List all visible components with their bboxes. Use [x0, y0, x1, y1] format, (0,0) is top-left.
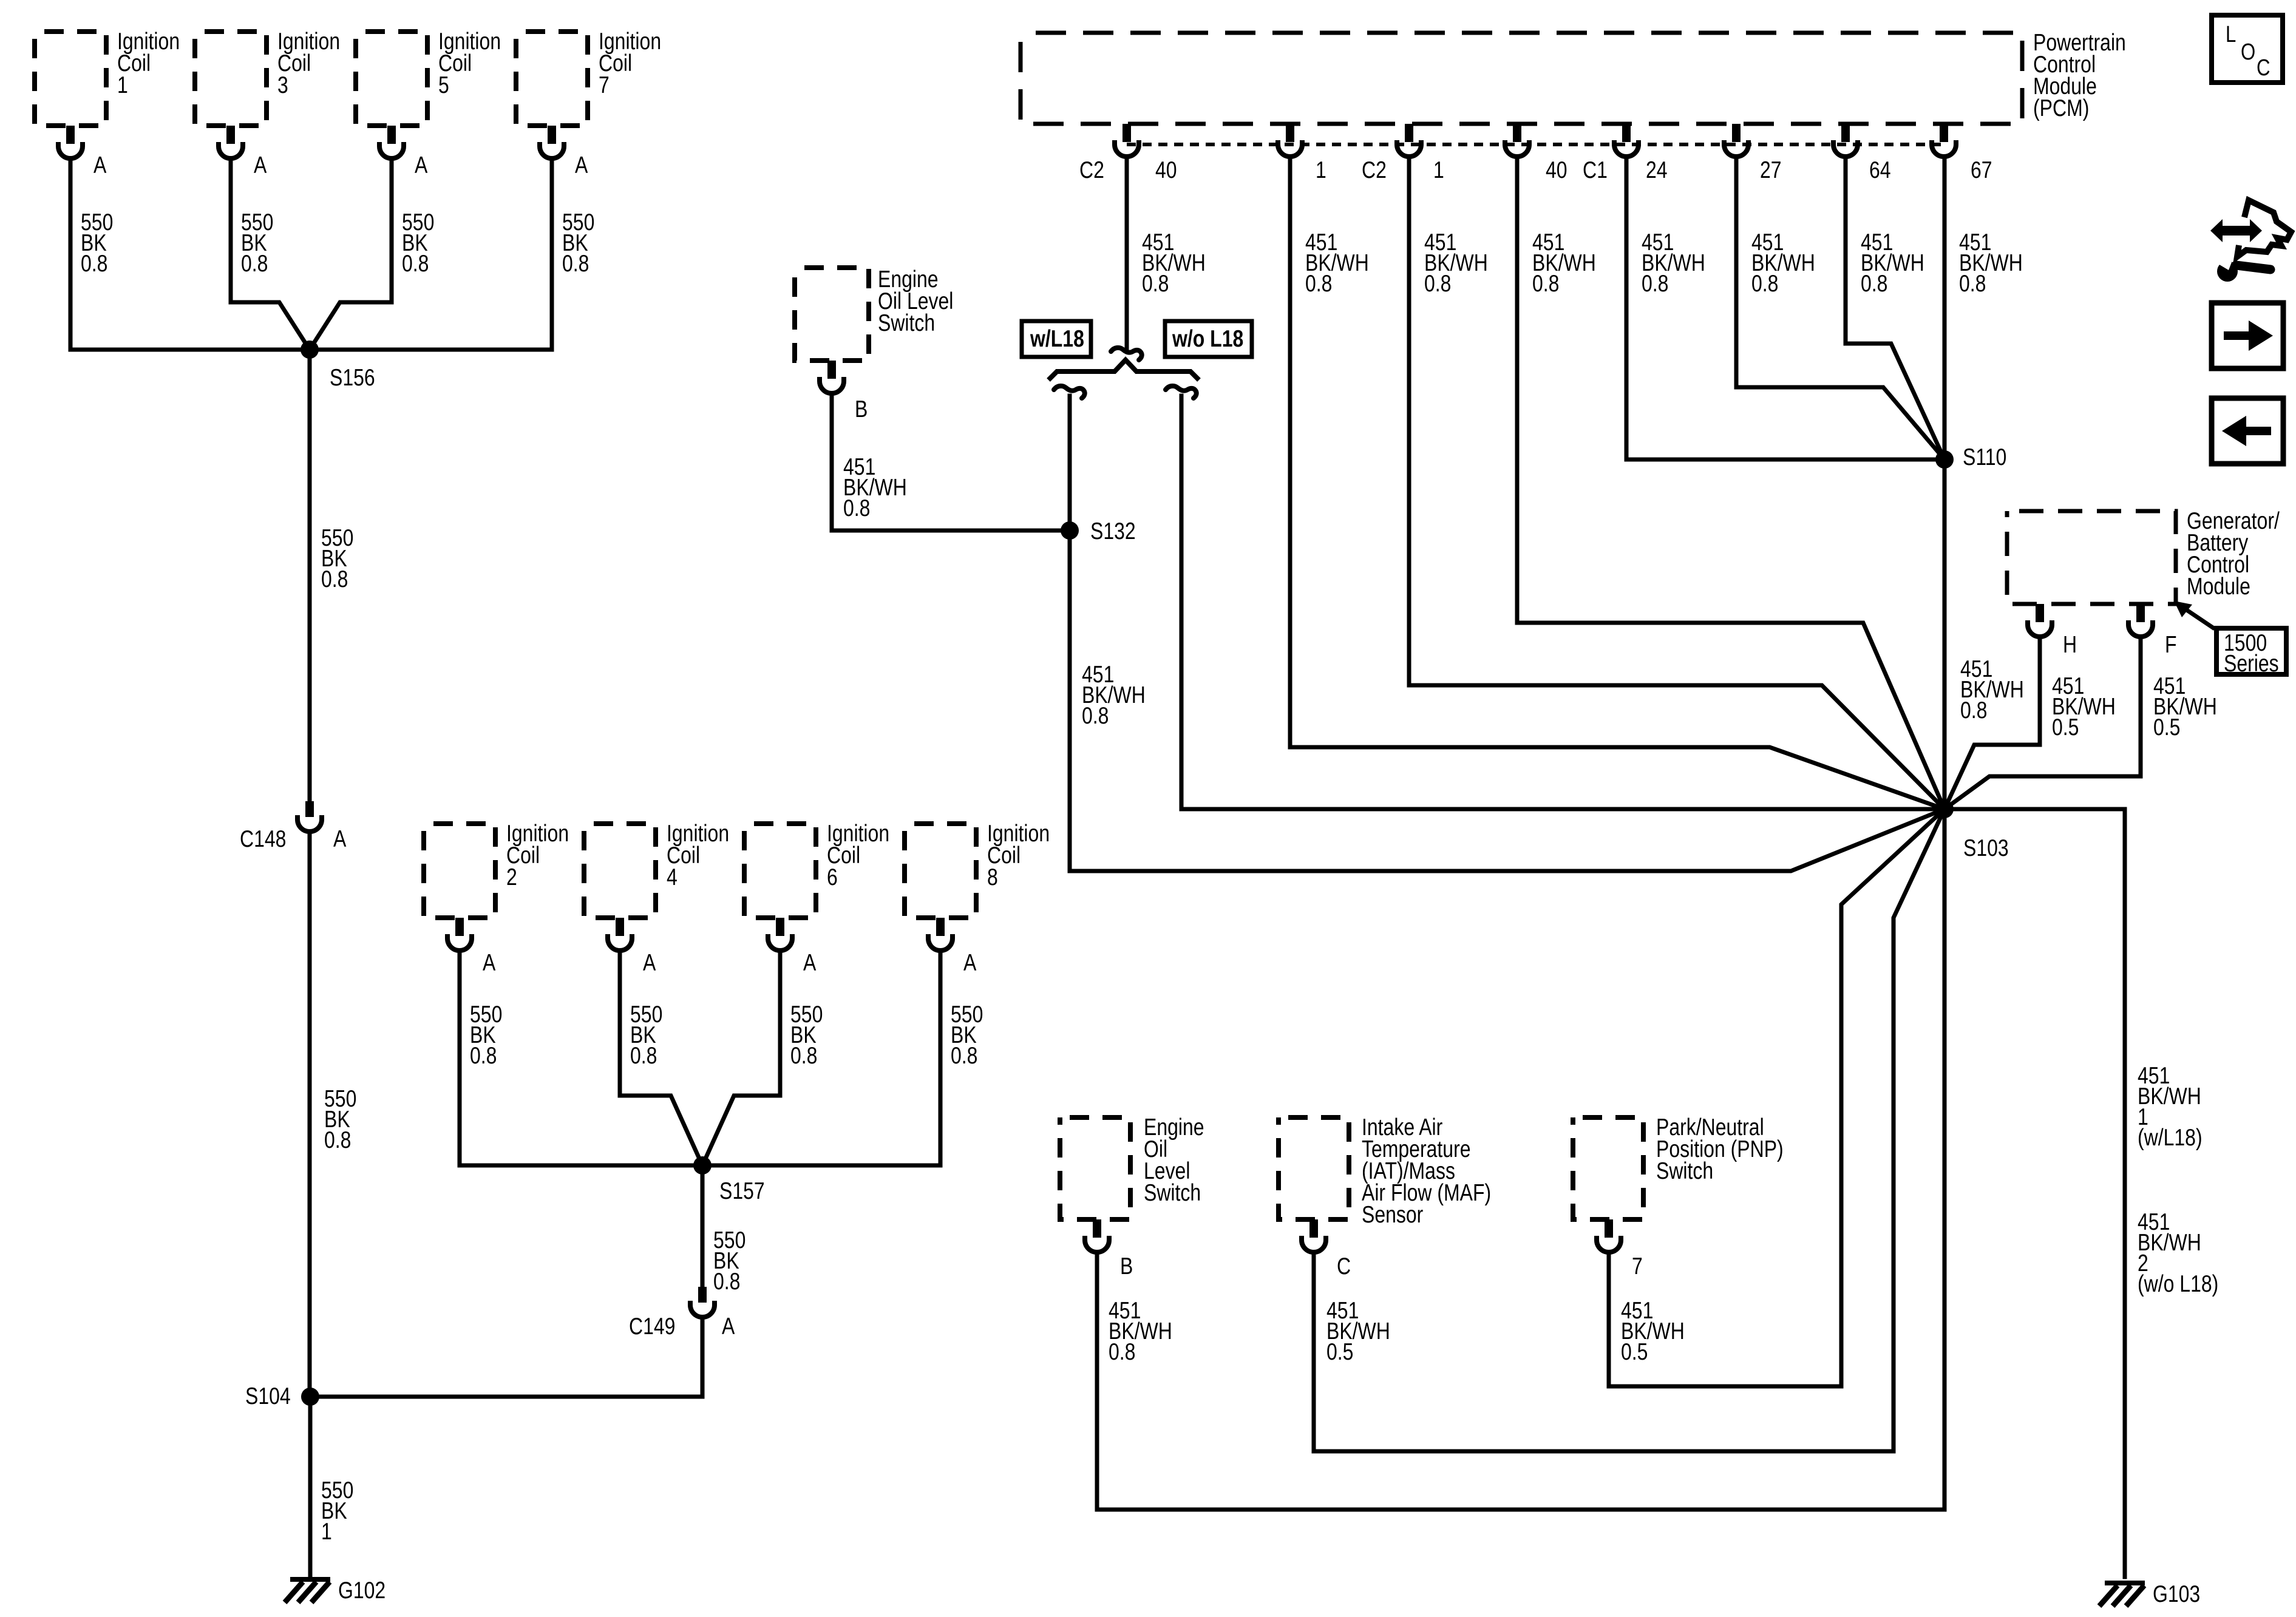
- svg-text:S156: S156: [330, 364, 375, 391]
- wire w/L18 branch down to S132: [1068, 396, 1072, 531]
- connector pin A of ignition coil 6: [768, 918, 792, 951]
- svg-text:A: A: [722, 1313, 735, 1340]
- Engine Oil Level Switch (dashed box, top): [795, 268, 869, 361]
- svg-text:w/L18: w/L18: [1030, 325, 1084, 352]
- wire 550 BK 1 from S104 to ground G102: [308, 1397, 313, 1577]
- connector pin H of generator/battery control module: [2028, 604, 2052, 637]
- wire 451 BK/WH 0.5 from pin H to S103: [1944, 637, 2040, 809]
- wire 451 BK/WH 0.8 from PCM pin 64 to S110: [1846, 157, 1944, 459]
- splice S132: [1061, 521, 1079, 540]
- svg-text:A: A: [483, 949, 496, 976]
- wire 550 BK 0.8 from coil 6 to S157: [702, 951, 780, 1165]
- wire 550 BK 0.8 from S157 to C149: [701, 1165, 705, 1287]
- svg-text:64: 64: [1869, 157, 1891, 183]
- connector pin A of ignition coil 1: [58, 126, 83, 158]
- svg-text:A: A: [643, 949, 656, 976]
- wire 550 BK 0.8 from coil 8 to S157 bus: [939, 951, 943, 1165]
- svg-text:27: 27: [1760, 157, 1782, 183]
- svg-text:B: B: [855, 396, 868, 422]
- splice S103: [1935, 800, 1954, 818]
- svg-text:S157: S157: [719, 1178, 765, 1204]
- PCM connector face line (fine dashes): [1127, 143, 1944, 146]
- svg-text:67: 67: [1971, 157, 1992, 183]
- ignition coil 3 (dashed box): [195, 32, 267, 126]
- connector pin A of ignition coil 7: [540, 126, 564, 158]
- svg-text:1: 1: [1316, 157, 1326, 183]
- connector pin A of ignition coil 4: [608, 918, 632, 951]
- PCM pin 40 connector: [1505, 124, 1529, 157]
- wire 451 BK/WH 0.8 from PCM pin C2-40 to harness break: [1125, 157, 1129, 351]
- connector pin B of engine oil level switch (top): [820, 361, 844, 393]
- wire 451 BK/WH 0.8 from PCM pin 1 to S103: [1290, 157, 1944, 809]
- splice S156: [301, 341, 319, 359]
- svg-text:L: L: [2226, 22, 2236, 47]
- svg-text:G102: G102: [338, 1577, 385, 1604]
- ground G103: [2099, 1581, 2145, 1606]
- connector pin C of IAT/MAF sensor: [1302, 1219, 1326, 1252]
- option label box w/L18: [1022, 321, 1091, 357]
- wire 451 BK/WH 0.8 from S132 to S103: [1070, 531, 1944, 871]
- wire 550 BK 0.8 from coil 5 to S156: [310, 158, 392, 350]
- option label box w/o L18: [1165, 321, 1252, 357]
- wire 550 BK 0.8 from S156 to C148: [308, 350, 312, 801]
- Engine Oil Level Switch (dashed box, bottom): [1060, 1117, 1130, 1219]
- svg-text:C: C: [1337, 1253, 1351, 1280]
- svg-text:S103: S103: [1963, 835, 2009, 861]
- svg-text:A: A: [575, 152, 588, 178]
- svg-text:C148: C148: [240, 825, 286, 852]
- svg-text:S110: S110: [1963, 444, 2006, 470]
- PCM pin 27 connector: [1724, 124, 1748, 157]
- wire 451 BK/WH 0.8 from PCM pin C2-1 to S103: [1409, 157, 1944, 809]
- PCM pin 64 connector: [1833, 124, 1858, 157]
- wire w/o L18 branch down and right to S103: [1181, 396, 1944, 809]
- wire 451 BK/WH 0.5 from pin F to S103: [1944, 637, 2141, 809]
- svg-text:C1: C1: [1583, 157, 1608, 183]
- Park/Neutral Position (PNP) Switch (dashed box): [1573, 1117, 1643, 1219]
- connector pin F of generator/battery control module: [2128, 604, 2153, 637]
- PCM pin 24 connector: [1614, 124, 1639, 157]
- LOC legend box: [2212, 15, 2283, 83]
- svg-text:40: 40: [1155, 157, 1177, 183]
- wire 451 BK/WH 0.8 from PCM pin 27 to S110: [1736, 157, 1944, 459]
- wire from S104 to C149: [310, 1317, 702, 1397]
- svg-text:A: A: [415, 152, 428, 178]
- svg-text:C149: C149: [629, 1313, 675, 1340]
- arrow from 1500 Series box to generator module: [2174, 601, 2215, 629]
- svg-text:A: A: [93, 152, 107, 178]
- svg-text:F: F: [2165, 631, 2177, 658]
- wire 550 BK 0.8 from C148 to S104: [308, 832, 312, 1397]
- in-line connector C149 pin A: [690, 1287, 715, 1317]
- harness break squiggle on pin C2-40 wire: [1111, 348, 1142, 360]
- repair tool icon (wrench and part outline): [2210, 200, 2291, 282]
- PCM pin 40 connector: [1115, 124, 1139, 157]
- wire 550 BK 0.8 from coil 7 to S156 bus: [550, 158, 554, 350]
- wire 451 BK/WH 0.8 from oil switch B to S132: [832, 393, 1070, 531]
- connector pin 7 of PNP switch: [1597, 1219, 1621, 1252]
- svg-text:1: 1: [1433, 157, 1444, 183]
- wire 451 BK/WH 0.8 from PCM pin 67 to S110: [1943, 157, 1947, 459]
- svg-text:A: A: [333, 825, 347, 852]
- wire 451 BK/WH 0.8 from PCM pin C1-24 to S110: [1626, 157, 1944, 459]
- wire 550 BK 0.8 from coil 3 to S156: [231, 158, 310, 350]
- splice S104: [301, 1388, 319, 1406]
- ground G102: [285, 1577, 330, 1602]
- svg-text:C: C: [2257, 55, 2271, 81]
- ignition coil 2 (dashed box): [424, 824, 495, 918]
- forward arrow navigation box: [2212, 303, 2283, 368]
- Intake Air Temperature (IAT)/Mass Air Flow (MAF) Sensor (dashed box): [1279, 1117, 1349, 1219]
- PCM pin 67 connector: [1932, 124, 1956, 157]
- svg-text:24: 24: [1646, 157, 1668, 183]
- ignition coil 1 (dashed box): [35, 32, 106, 126]
- svg-text:C2: C2: [1079, 157, 1104, 183]
- in-line connector C148 pin A: [297, 801, 322, 832]
- connector pin A of ignition coil 3: [219, 126, 243, 158]
- splice S157: [693, 1156, 712, 1175]
- ignition coil 6 (dashed box): [744, 824, 816, 918]
- svg-text:A: A: [963, 949, 977, 976]
- svg-text:A: A: [803, 949, 817, 976]
- svg-text:w/o L18: w/o L18: [1172, 325, 1243, 352]
- ignition coil 8 (dashed box): [905, 824, 976, 918]
- connector pin A of ignition coil 8: [928, 918, 953, 951]
- harness break squiggle w/o L18 branch: [1166, 386, 1197, 398]
- back arrow navigation box: [2212, 398, 2283, 464]
- harness break squiggle w/L18 branch: [1054, 386, 1085, 398]
- ignition coil 5 (dashed box): [356, 32, 427, 126]
- wire 451 BK/WH from S103 to ground G103: [1944, 809, 2125, 1577]
- PCM pin 1 connector: [1278, 124, 1302, 157]
- wire 550 BK 0.8 from coil 4 to S157: [620, 951, 702, 1165]
- svg-text:H: H: [2063, 631, 2077, 658]
- wire bus into splice S156: [70, 348, 552, 352]
- PCM pin 1 connector: [1397, 124, 1421, 157]
- connector pin A of ignition coil 5: [379, 126, 404, 158]
- wire 451 BK/WH 0.8 from S110 to S103: [1943, 459, 1947, 809]
- svg-text:40: 40: [1546, 157, 1567, 183]
- wire 451 BK/WH 0.8 from bottom oil switch B to S103: [1097, 809, 1944, 1510]
- svg-text:C2: C2: [1362, 157, 1387, 183]
- wire 550 BK 0.8 from coil 2 to S157 bus: [458, 951, 462, 1165]
- wire 550 BK 0.8 from coil 1 to S156 bus: [69, 158, 73, 350]
- splice S110: [1935, 450, 1954, 469]
- svg-text:B: B: [1120, 1253, 1133, 1280]
- svg-text:S104: S104: [245, 1383, 291, 1409]
- ignition coil 7 (dashed box): [516, 32, 588, 126]
- svg-text:G103: G103: [2153, 1581, 2200, 1607]
- ignition coil 4 (dashed box): [584, 824, 656, 918]
- callout box 1500 Series: [2216, 628, 2286, 674]
- wire 451 BK/WH 0.8 from PCM pin 40 to S103: [1517, 157, 1944, 809]
- svg-text:O: O: [2241, 39, 2255, 65]
- Generator/Battery Control Module (dashed box): [2007, 511, 2176, 604]
- wire bus into splice S157: [460, 1164, 940, 1168]
- wire 451 BK/WH 0.5 from PNP 7 to S103: [1609, 809, 1944, 1386]
- svg-text:S132: S132: [1090, 518, 1136, 544]
- svg-text:7: 7: [1632, 1253, 1643, 1280]
- brace splitting w/L18 and w/o L18 branches: [1048, 360, 1199, 380]
- wire 451 BK/WH 0.5 from IAT/MAF C to S103: [1314, 809, 1944, 1451]
- connector pin B of engine oil level switch (bottom): [1085, 1219, 1109, 1252]
- connector pin A of ignition coil 2: [447, 918, 472, 951]
- svg-text:A: A: [254, 152, 267, 178]
- Powertrain Control Module PCM (dashed box): [1021, 33, 2022, 124]
